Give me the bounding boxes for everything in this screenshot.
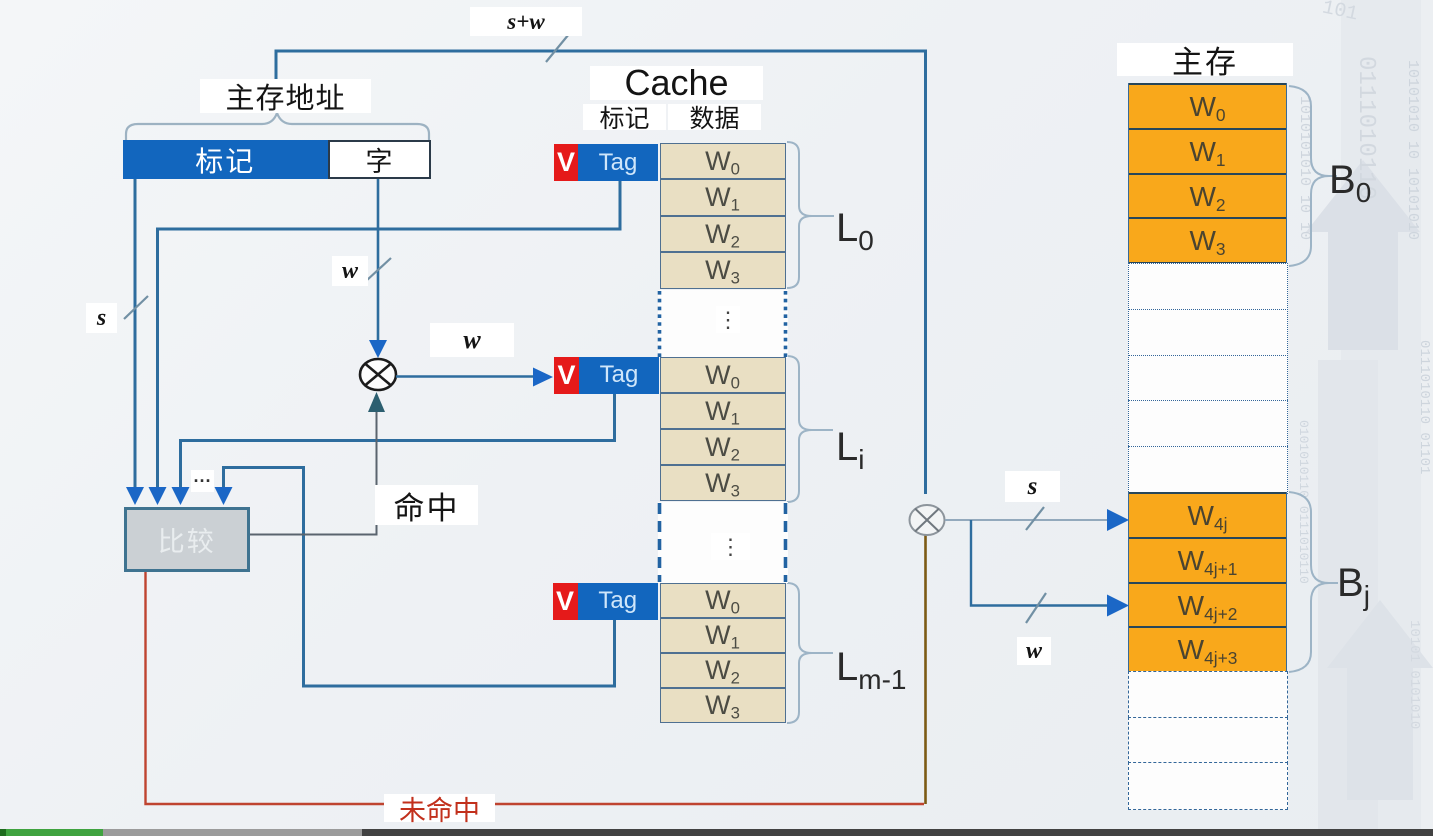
label dots over comparator (191, 470, 214, 492)
cache separator background upper (658, 290, 788, 358)
arrowhead into comparator 3 (172, 487, 190, 505)
arrowhead into comparator 1 (126, 487, 144, 505)
label Cache (590, 66, 763, 100)
dotted column separator upper (660, 291, 786, 357)
arrowhead into W4j+2 (1107, 595, 1129, 617)
arrowhead into W4j (1107, 509, 1129, 531)
wire multiplier to line Li (396, 375, 535, 377)
cache line L0 (553, 143, 555, 145)
memory empty dotted cells (1128, 263, 1288, 494)
slash tick on s+w wire (546, 34, 569, 62)
label L0 (836, 206, 874, 257)
cache line Li (553, 356, 555, 358)
wire from 标记 field down to comparator (134, 179, 137, 492)
brace under 主存地址 (126, 113, 429, 141)
memory block B0 (1128, 83, 1287, 264)
wire s to memory block (945, 519, 1110, 521)
arrowhead into comparator 2 (149, 487, 167, 505)
label w mid (332, 256, 368, 286)
label s memory (1005, 471, 1060, 502)
brace Lm-1 (787, 583, 833, 723)
label 数据 column (668, 104, 761, 130)
wire L0 tag to comparator (158, 181, 621, 492)
dashed column separator lower (660, 503, 786, 582)
cache data rows Lm-1 (660, 583, 786, 723)
wire Li tag to comparator (181, 394, 615, 493)
wire w to memory block (971, 520, 1110, 606)
cache data rows Li (660, 357, 786, 501)
arrowhead into comparator 4 (215, 487, 233, 505)
slash tick s memory (1026, 507, 1044, 530)
arrowhead into multiplier top (369, 340, 387, 358)
hit wire from comparator to multiplier (250, 412, 377, 535)
label 标记 column (583, 104, 666, 130)
brace Li (787, 356, 833, 502)
distributor node (memory side) (910, 505, 945, 535)
brace L0 (787, 142, 834, 288)
label Li (836, 425, 864, 476)
label 主存 (1117, 43, 1293, 76)
label Lm-1 (836, 645, 906, 696)
arrowhead hit into multiplier bottom (368, 392, 385, 412)
slash tick w on word wire (366, 258, 391, 281)
cache line Lm-1 (552, 582, 554, 584)
brace B0 (1289, 86, 1337, 266)
label Bj (1337, 561, 1370, 612)
memory empty dashed cells (1128, 671, 1288, 810)
label 命中 (375, 485, 478, 525)
bottom progress bar (0, 829, 1433, 836)
memory block Bj (1128, 492, 1287, 673)
label s left (86, 303, 117, 333)
label B0 (1329, 158, 1371, 209)
label 未命中 (384, 794, 495, 822)
cache data rows L0 (660, 143, 786, 289)
wire 字 word field down to multiplier (377, 179, 380, 340)
slash tick w memory (1026, 593, 1046, 623)
wire Lm-1 tag to comparator (224, 468, 615, 687)
comparator box 比较 (124, 507, 251, 572)
multiplier node (word select) (360, 359, 396, 390)
label w memory (1017, 637, 1051, 665)
label vdots upper (716, 306, 740, 333)
label w right of multiplier (430, 323, 514, 357)
miss wire brown vertical up to distributor (924, 535, 927, 804)
cache separator background lower (658, 502, 788, 583)
register field 标记 (123, 140, 328, 179)
wire s+w: top bus from address register to right-side distributor (276, 51, 926, 494)
label vdots lower (711, 533, 750, 560)
brace Bj (1289, 492, 1338, 672)
label s+w (470, 7, 582, 36)
arrowhead into Li V (533, 368, 553, 387)
miss wire red from comparator to memory side (146, 572, 925, 804)
label 主存地址 (200, 79, 371, 113)
slash tick s on tag wire (124, 296, 148, 319)
register field 字 (328, 140, 431, 179)
